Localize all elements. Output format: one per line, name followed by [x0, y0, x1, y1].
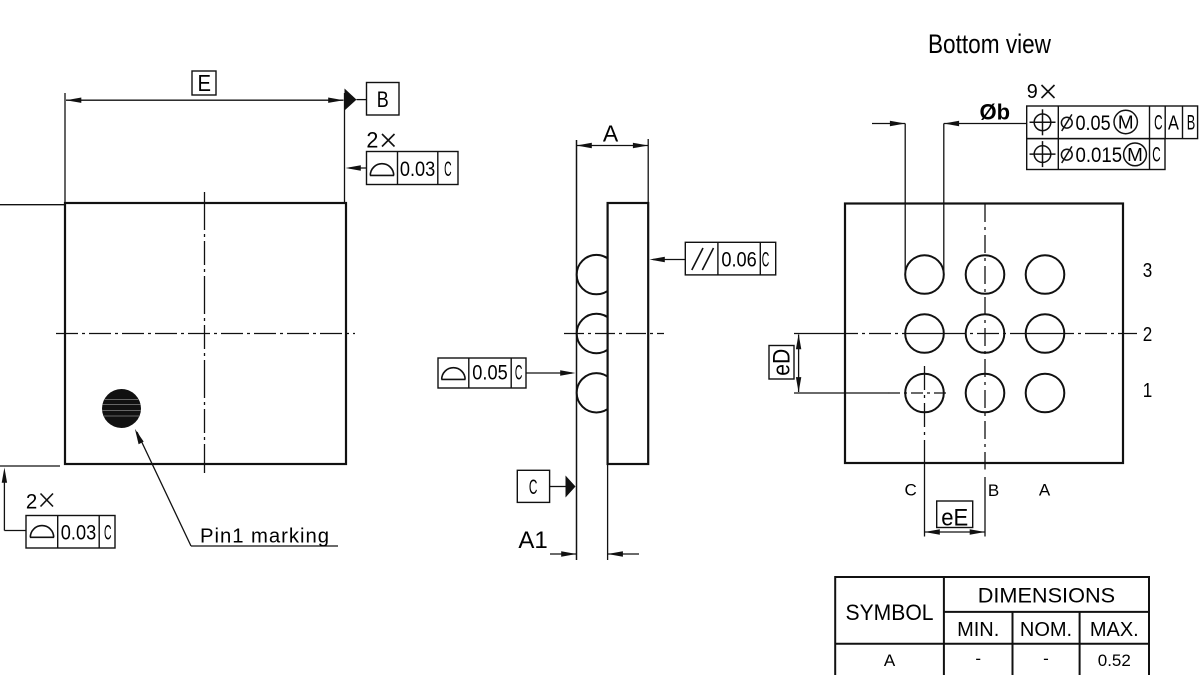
Øb dimension line left: [872, 123, 905, 125]
M circle row1: [1114, 110, 1137, 133]
svg-text:0.05: 0.05: [472, 362, 507, 385]
svg-text:0.03: 0.03: [61, 522, 96, 545]
eD dimension line: [798, 335, 800, 393]
eE dimension line: [925, 531, 986, 533]
svg-text:Øb: Øb: [980, 100, 1011, 125]
profile FCF bottom-left box: [26, 516, 115, 549]
svg-text:E: E: [198, 70, 212, 96]
E label box: [192, 71, 216, 95]
svg-text:M: M: [1118, 113, 1134, 133]
pin1 leader wire: [137, 432, 191, 546]
diameter symbol row1: [1061, 114, 1072, 131]
pin1 marking dot: [102, 389, 141, 428]
bottom view package outline: [845, 204, 1123, 464]
profile symbol (bottom-left FCF): [30, 526, 54, 538]
svg-text:M: M: [1127, 145, 1143, 165]
ball B3: [966, 255, 1005, 294]
profile symbol (side FCF): [441, 368, 465, 380]
svg-text:A: A: [1168, 113, 1179, 135]
svg-text:A1: A1: [518, 527, 547, 554]
column B center line: [984, 204, 986, 464]
table row lines: [944, 611, 1149, 613]
ball A1: [1026, 374, 1065, 413]
svg-text:C: C: [444, 158, 452, 181]
parallelism symbol: [692, 248, 714, 270]
svg-text:0.03: 0.03: [400, 158, 435, 181]
eE dimension box: [937, 501, 973, 528]
ball B1: [966, 374, 1005, 413]
svg-text:C: C: [104, 522, 112, 545]
top view package outline: [65, 203, 346, 464]
seating plane line / datum C line: [576, 140, 578, 560]
svg-text:-: -: [975, 649, 981, 668]
A1 extension line: [607, 465, 609, 560]
svg-text:0.52: 0.52: [1098, 651, 1131, 670]
datum B triangle: [345, 89, 357, 111]
ball B2: [966, 314, 1005, 353]
A dimension line: [577, 145, 649, 147]
diameter symbol row2: [1061, 146, 1072, 163]
svg-text:-: -: [1043, 649, 1049, 668]
svg-text:Bottom view: Bottom view: [928, 29, 1051, 59]
ball C1: [905, 374, 944, 413]
datum C box: [517, 470, 549, 502]
svg-text:C: C: [762, 249, 770, 272]
Øb tangent extension lines: [904, 124, 906, 275]
svg-text:MIN.: MIN.: [957, 619, 999, 641]
svg-text:NOM.: NOM.: [1020, 619, 1072, 641]
svg-text:A: A: [1039, 481, 1051, 500]
ball C2: [905, 314, 944, 353]
horizontal center line: [56, 333, 355, 335]
profile FCF side: box: [438, 358, 526, 388]
position FCF box row1: [1027, 106, 1198, 139]
E dimension extension lines: [64, 93, 66, 202]
svg-text:0.015: 0.015: [1076, 144, 1123, 167]
svg-text:MAX.: MAX.: [1090, 619, 1139, 641]
profile FCF top-right box: [367, 152, 459, 185]
side view center line: [564, 333, 664, 335]
svg-text:DIMENSIONS: DIMENSIONS: [978, 582, 1115, 607]
side view body: [608, 203, 649, 464]
table outer border: [835, 577, 1149, 675]
svg-text:C: C: [529, 475, 538, 499]
M circle row2: [1124, 143, 1147, 166]
svg-text:eD: eD: [769, 349, 796, 376]
A1 dimension arrows: [550, 553, 577, 555]
column C center line: [924, 366, 926, 463]
eD dimension box: [769, 346, 794, 380]
parallelism FCF leader arrow: [653, 259, 685, 261]
bottom edge extension line: [0, 465, 60, 467]
svg-text:Pin1 marking: Pin1 marking: [200, 526, 329, 548]
top edge extension line: [0, 204, 64, 206]
svg-text:A: A: [884, 651, 896, 670]
svg-text:0.05: 0.05: [1076, 112, 1111, 135]
profile FCF bottom-left: leader: [2, 468, 7, 483]
E dimension line: [66, 99, 344, 101]
svg-text:C: C: [515, 362, 523, 385]
svg-text:2: 2: [26, 490, 37, 514]
svg-text:3: 3: [1143, 260, 1153, 282]
profile symbol (top-right FCF): [370, 164, 394, 176]
svg-text:C: C: [905, 481, 917, 500]
Øb dimension line right: [944, 123, 1027, 125]
svg-text:A: A: [603, 121, 619, 147]
svg-text:C: C: [1152, 144, 1160, 167]
svg-text:B: B: [988, 481, 999, 500]
position symbol row1: [1030, 109, 1056, 135]
A dimension extension line: [647, 139, 649, 202]
svg-text:B: B: [377, 87, 389, 112]
svg-text:B: B: [1187, 112, 1196, 135]
side view balls: [577, 255, 616, 294]
table column lines: [943, 577, 945, 675]
svg-text:2: 2: [1143, 324, 1153, 346]
datum B box: [367, 83, 400, 116]
svg-text:0.06: 0.06: [721, 249, 756, 272]
pin1 leader arrowhead: [135, 429, 144, 444]
profile FCF top-right: leader arrow: [349, 167, 367, 169]
vertical center line: [204, 192, 206, 473]
position symbol row2: [1030, 141, 1056, 167]
svg-text:2: 2: [366, 128, 378, 153]
ball C3: [905, 255, 944, 294]
ball A3: [1026, 255, 1065, 294]
svg-text:eE: eE: [941, 505, 968, 532]
svg-text:1: 1: [1143, 380, 1153, 402]
profile FCF side: leader arrow: [526, 372, 572, 374]
svg-text:9: 9: [1027, 81, 1038, 103]
datum C triangle: [566, 476, 576, 498]
row 1 center line: [794, 392, 888, 394]
row 2 center line: [794, 333, 1137, 335]
svg-text:C: C: [1154, 112, 1162, 135]
ball A2: [1026, 314, 1065, 353]
position FCF box row2: [1027, 139, 1165, 170]
datum C stem: [550, 486, 566, 488]
svg-text:SYMBOL: SYMBOL: [846, 600, 934, 625]
parallelism FCF box: [685, 242, 775, 275]
